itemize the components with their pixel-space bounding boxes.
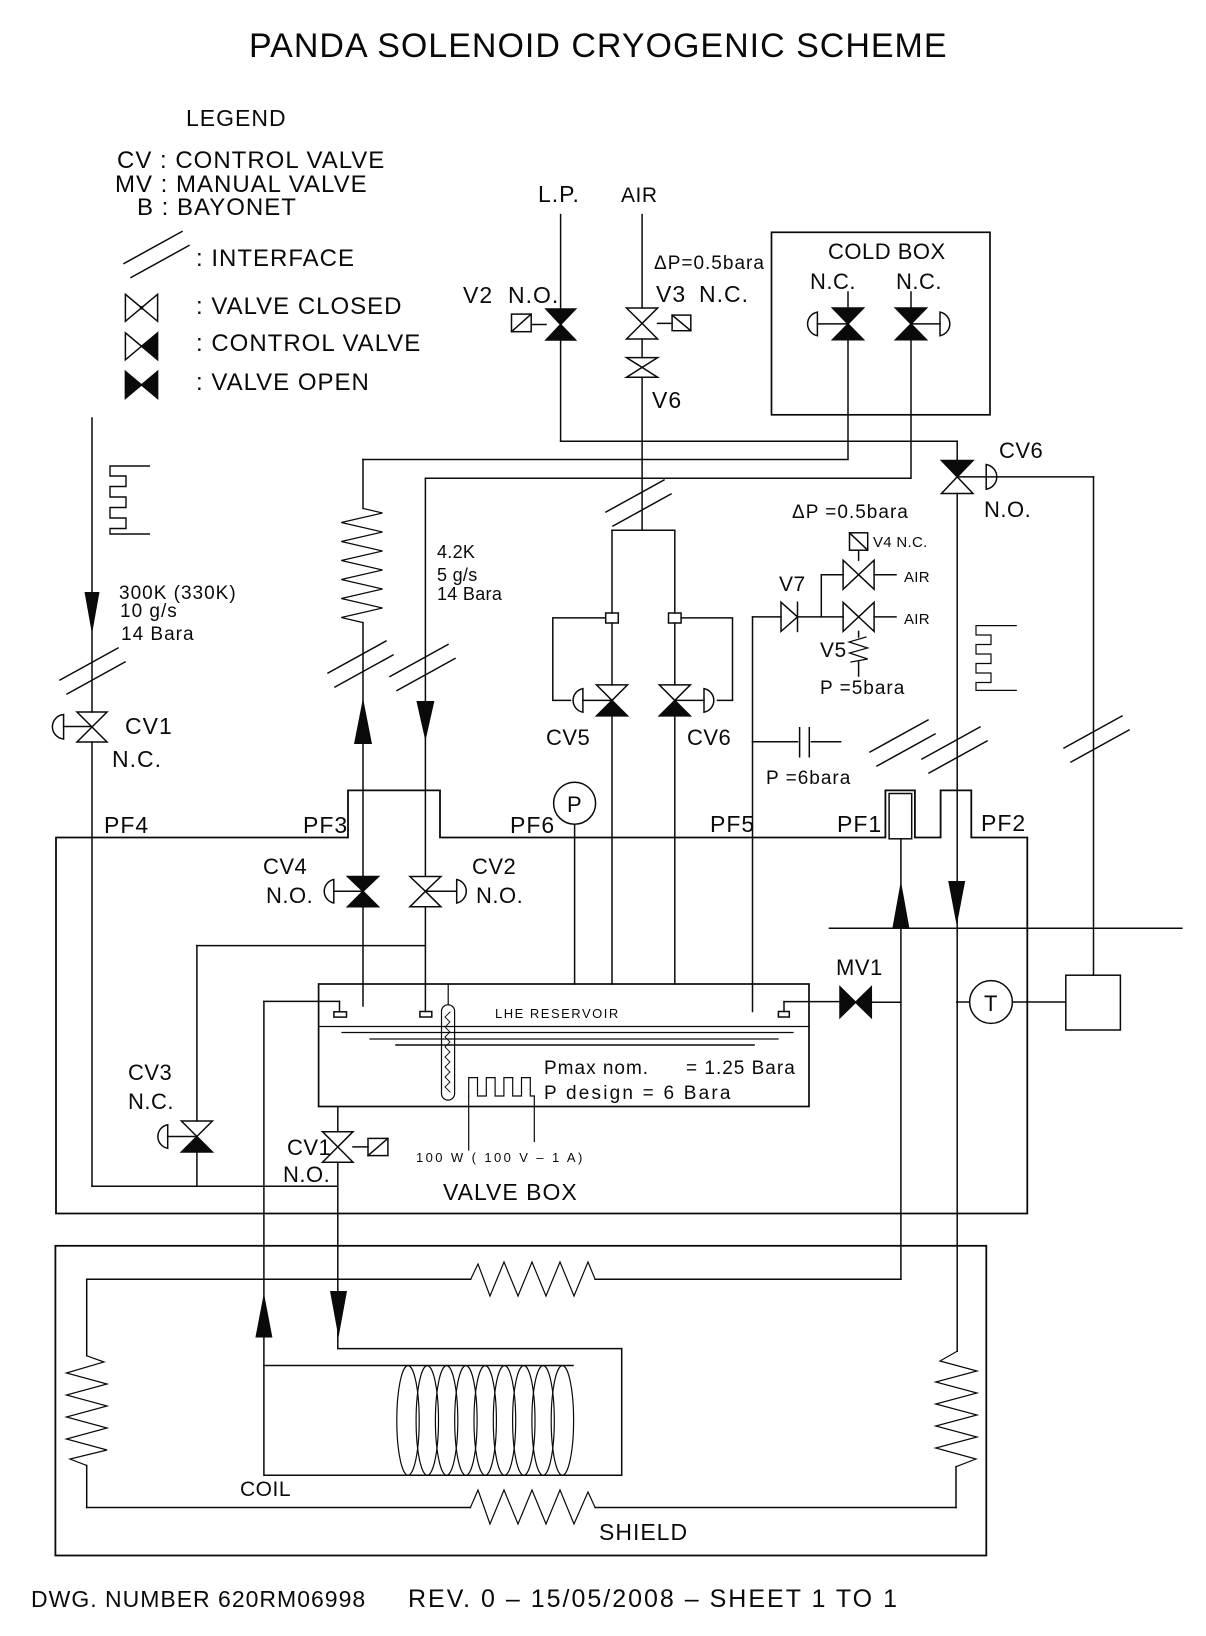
wire: P3 lower vertical to CV2 — [424, 478, 426, 876]
CV3 actuator — [158, 1125, 168, 1149]
svg-text:V2: V2 — [463, 282, 493, 308]
svg-text:100 W ( 100 V – 1 A): 100 W ( 100 V – 1 A) — [416, 1150, 585, 1165]
svg-text:CV5: CV5 — [546, 725, 590, 750]
svg-text:N.C.: N.C. — [112, 746, 162, 772]
flow arrow A7 down coil return — [330, 1291, 347, 1338]
control valve CV1 (valve box) body — [323, 1132, 354, 1163]
svg-text:VALVE BOX: VALVE BOX — [443, 1179, 578, 1205]
wire: CV2 tail into reservoir — [424, 907, 426, 1012]
wire: header y=459.5 from P2 to cold box left drop — [363, 459, 848, 461]
interface marks I4 — [606, 480, 671, 526]
CV4 actuator — [324, 880, 334, 904]
flange on MV1 dip tube — [778, 1012, 789, 1018]
flow arrow A6 up coil feed — [255, 1293, 272, 1338]
control valve CV6 (top right) body — [956, 441, 958, 460]
svg-text:N.C.: N.C. — [810, 269, 856, 294]
svg-text:10 g/s: 10 g/s — [120, 601, 178, 622]
wire: cold box left valve stem — [847, 292, 849, 308]
interface marks I1 on P1 — [60, 648, 125, 694]
CV6 top actuator — [986, 465, 997, 490]
svg-text:N.O.: N.O. — [508, 282, 559, 308]
svg-text:LEGEND: LEGEND — [186, 105, 287, 131]
svg-text:CV6: CV6 — [999, 438, 1043, 463]
svg-text:PANDA SOLENOID CRYOGENIC SCHEM: PANDA SOLENOID CRYOGENIC SCHEME — [249, 27, 948, 65]
wire: PF1 pipe down to shield — [900, 839, 902, 1279]
svg-text:: INTERFACE: : INTERFACE — [196, 245, 355, 272]
wire: cold box left valve drop to header — [847, 340, 849, 460]
CV1 actuator — [52, 715, 63, 740]
svg-text:PF6: PF6 — [510, 812, 555, 838]
shield top heat exchanger zigzag — [471, 1262, 595, 1296]
wire: CV6 tail to reservoir — [674, 716, 676, 984]
svg-text:ΔP =0.5bara: ΔP =0.5bara — [792, 502, 909, 523]
flow arrow A4 down — [948, 881, 965, 926]
svg-text:CV : CONTROL VALVE: CV : CONTROL VALVE — [117, 147, 385, 174]
flow arrow A2 up on P2 — [354, 698, 372, 744]
svg-text:= 1.25 Bara: = 1.25 Bara — [686, 1058, 796, 1079]
svg-text:5 g/s: 5 g/s — [437, 565, 478, 585]
svg-text:REV. 0 – 15/05/2008 – SHEET 1: REV. 0 – 15/05/2008 – SHEET 1 TO 1 — [408, 1585, 899, 1613]
svg-text:SHIELD: SHIELD — [599, 1519, 688, 1545]
wire: reservoir to MV1 — [783, 1002, 785, 1012]
wire: PF5 drop pipe x=752.5 — [752, 617, 754, 1012]
CV1 solenoid square — [368, 1138, 388, 1155]
svg-text:N.O.: N.O. — [266, 883, 313, 908]
valve V2 body (open) — [546, 309, 576, 340]
wire: header y=478.3 from P3 to cold box right drop — [425, 477, 910, 479]
svg-text:14 Bara: 14 Bara — [121, 624, 195, 645]
svg-text:ΔP=0.5bara: ΔP=0.5bara — [654, 253, 765, 274]
pressure gauge PF6 P — [554, 782, 596, 824]
wire: P2 lower vertical to CV4 — [362, 623, 364, 876]
svg-text:CV4: CV4 — [263, 854, 307, 879]
svg-text:P: P — [567, 792, 582, 817]
svg-text:CV1: CV1 — [287, 1135, 331, 1160]
svg-text:N.O.: N.O. — [283, 1162, 330, 1187]
wire: V7 line y=616.9 — [753, 616, 782, 618]
wire: CV5 stem — [611, 623, 613, 685]
bayonet PF1 rectangle — [889, 794, 912, 839]
valve V4 body (upper AIR) — [843, 560, 874, 589]
valve box boundary with PF bumps — [56, 790, 1027, 1213]
svg-text:DWG. NUMBER 620RM06998: DWG. NUMBER 620RM06998 — [31, 1586, 366, 1612]
svg-text:PF1: PF1 — [837, 811, 882, 837]
wire: L.P. drop line x=560.6 — [560, 215, 562, 309]
svg-text:CV6: CV6 — [687, 725, 731, 750]
wire: recovery header y=928.3 — [829, 927, 1182, 929]
CV6 middle actuator — [704, 689, 714, 713]
svg-text:PF4: PF4 — [104, 812, 149, 838]
wire: shield right riser — [955, 1467, 957, 1508]
coil box outline — [264, 1349, 622, 1476]
interface marks I7 — [1064, 716, 1129, 762]
wire: CV5 pilot bracket — [553, 618, 606, 701]
flow arrow A1 down on P1 — [85, 592, 100, 634]
flow arrow A5 up on PF1 pipe — [892, 881, 909, 928]
svg-text:PF3: PF3 — [303, 812, 348, 838]
svg-text:T: T — [984, 991, 998, 1016]
V2 solenoid square — [512, 314, 532, 332]
LHE reservoir vessel — [319, 984, 809, 1107]
wire: CV6 return pipe x=1093.5 down to instrument box — [1093, 477, 1095, 975]
wire: coil return elbow — [338, 1341, 622, 1349]
wire: CV3 tail to bottom header — [196, 1152, 198, 1186]
reservoir heater element — [469, 1078, 535, 1096]
cold box left valve body (open) — [833, 308, 864, 340]
svg-text:CV1: CV1 — [125, 713, 173, 739]
V3 solenoid square — [672, 315, 691, 331]
heater lead wires — [468, 1096, 470, 1150]
svg-text:N.C.: N.C. — [699, 281, 749, 307]
svg-text:COLD BOX: COLD BOX — [828, 239, 946, 264]
shield left heat exchanger zigzag — [66, 1356, 107, 1466]
pilot tap square CV6 — [669, 613, 682, 623]
control valve CV3 body — [181, 1121, 212, 1152]
flange on CV3 dip tube — [334, 1012, 347, 1017]
svg-text:LHE RESERVOIR: LHE RESERVOIR — [495, 1006, 620, 1021]
cryostat enclosure — [55, 1246, 986, 1556]
flow arrow A3 down on P3 — [416, 701, 434, 741]
interface marks I5 — [870, 720, 935, 766]
control valve CV6 (middle) body — [659, 685, 690, 716]
svg-text:AIR: AIR — [904, 611, 930, 628]
wire: CV6 stem — [674, 623, 676, 685]
control valve CV4 body (open) — [348, 877, 379, 907]
wire: CV6 pilot bracket — [681, 618, 732, 701]
legend valve open symbol — [125, 371, 157, 398]
svg-text:V3: V3 — [656, 281, 686, 307]
shield right heat exchanger zigzag — [936, 1351, 977, 1467]
manual valve MV1 body (open) — [840, 987, 871, 1018]
level gauge capsule — [442, 984, 455, 1100]
pilot tap square CV5 — [606, 613, 619, 623]
svg-text:PF2: PF2 — [981, 810, 1026, 836]
svg-text:V7: V7 — [779, 573, 806, 596]
svg-text:V6: V6 — [652, 387, 682, 413]
reservoir inner top line — [319, 1026, 809, 1028]
temperature sensor T branch — [957, 1001, 970, 1003]
legend valve closed symbol — [125, 294, 157, 321]
svg-text:N.C.: N.C. — [128, 1089, 174, 1114]
wire: V4 stem — [858, 550, 860, 560]
svg-text:: CONTROL VALVE: : CONTROL VALVE — [196, 330, 421, 357]
legend interface symbol — [124, 232, 189, 278]
cold box right actuator — [940, 312, 950, 336]
svg-text:B : BAYONET: B : BAYONET — [137, 194, 297, 221]
svg-text:AIR: AIR — [904, 569, 930, 586]
svg-text:P =5bara: P =5bara — [820, 678, 905, 699]
svg-text:N.O.: N.O. — [984, 497, 1031, 522]
valve V3 body (closed) — [627, 308, 658, 339]
svg-text:MV1: MV1 — [836, 955, 883, 980]
control valve CV5 body — [597, 685, 628, 716]
wire: CV3 riser — [196, 946, 198, 1121]
heater comb symbol left — [110, 466, 149, 534]
wire: shield bottom run — [87, 1507, 471, 1509]
control valve CV1 (top left) body — [77, 712, 107, 742]
valve V5 body (lower AIR) — [843, 602, 874, 631]
control valve CV2 body (closed) — [410, 877, 441, 907]
heater comb symbol right — [976, 626, 1016, 691]
rupture disc branch (capacitor symbol) — [753, 728, 841, 757]
wire: CV1 valve-box riser from reservoir bottom — [337, 1107, 339, 1132]
cold box left actuator — [808, 312, 818, 336]
svg-text:N.C.: N.C. — [896, 269, 942, 294]
valve V6 body — [627, 358, 658, 378]
wire: P1 elbow to CV1/CV3 bottom header y=1186.3 — [92, 1185, 338, 1187]
wire: between V3 and V6 — [641, 339, 643, 358]
svg-text:PF5: PF5 — [710, 811, 755, 837]
valve V7 (check) body — [781, 602, 798, 631]
svg-text:4.2K: 4.2K — [437, 542, 475, 562]
wire: CV3 branch header y=945.6 — [197, 945, 426, 947]
wire: V4 branch riser — [821, 575, 843, 617]
liquid level lines — [342, 1032, 793, 1034]
svg-text:L.P.: L.P. — [538, 181, 580, 207]
svg-text:: VALVE OPEN: : VALVE OPEN — [196, 369, 370, 396]
instrument box — [1066, 975, 1121, 1030]
interface marks I2 on P2 — [328, 641, 393, 687]
wire: CV1 drop to coil — [337, 1162, 339, 1341]
wire: P2 riser top — [362, 460, 364, 509]
svg-text:N.O.: N.O. — [476, 883, 523, 908]
CV2 actuator — [457, 880, 467, 904]
wire: CV3 line through reservoir wall — [264, 1000, 340, 1002]
relief spring V5 — [849, 631, 868, 676]
wire: AIR drop line x=642.1 — [641, 215, 643, 308]
svg-text:CV2: CV2 — [472, 854, 516, 879]
wire: shield left drop — [86, 1279, 88, 1356]
CV5 actuator — [573, 689, 583, 713]
coil winding ellipses — [397, 1366, 574, 1476]
wire: V6 down to manifold — [641, 377, 643, 530]
svg-text:: VALVE CLOSED: : VALVE CLOSED — [196, 293, 403, 320]
wire: shield top run — [595, 1278, 901, 1280]
svg-text:AIR: AIR — [621, 184, 658, 207]
svg-text:P =6bara: P =6bara — [766, 768, 851, 789]
legend control valve symbol — [125, 333, 157, 360]
wire: CV5/CV6 manifold — [612, 529, 675, 531]
svg-text:14 Bara: 14 Bara — [437, 584, 503, 604]
svg-text:P design = 6 Bara: P design = 6 Bara — [544, 1083, 733, 1104]
COLD BOX enclosure — [772, 232, 991, 414]
wire: CV6 drop pipe x=957.2 to shield — [956, 494, 958, 1352]
svg-text:Pmax nom.: Pmax nom. — [544, 1058, 649, 1079]
wire: cold box right valve drop to header — [910, 340, 912, 479]
wire: MV1 to PF1 pipe — [871, 1001, 901, 1003]
svg-text:CV3: CV3 — [128, 1060, 172, 1085]
wire: CV4 tail into reservoir — [362, 907, 364, 1006]
cold box right valve body (open) — [896, 308, 927, 340]
svg-text:V5: V5 — [820, 639, 847, 662]
wire: coil feed drop x=263.9 — [263, 1001, 265, 1365]
interface marks I3 on P3 — [390, 645, 455, 691]
wire: cold box right valve stem — [910, 292, 912, 308]
heat exchanger zigzag on P2 — [341, 508, 382, 622]
wire: L.P. header y=441.2 to CV6 — [561, 440, 958, 442]
svg-text:V4 N.C.: V4 N.C. — [873, 534, 928, 551]
wire: lower AIR stub — [874, 616, 896, 618]
flange on CV2 tail — [420, 1012, 432, 1018]
svg-text:COIL: COIL — [240, 1478, 291, 1501]
solenoid square V4 — [850, 533, 868, 550]
shield bottom heat exchanger zigzag — [470, 1490, 595, 1524]
wire: CV5 tail to reservoir — [611, 716, 613, 984]
interface marks I6 — [922, 727, 987, 773]
wire: main left supply pipe P1 vertical x=92 — [91, 418, 93, 712]
wire: upper AIR stub — [874, 574, 896, 576]
